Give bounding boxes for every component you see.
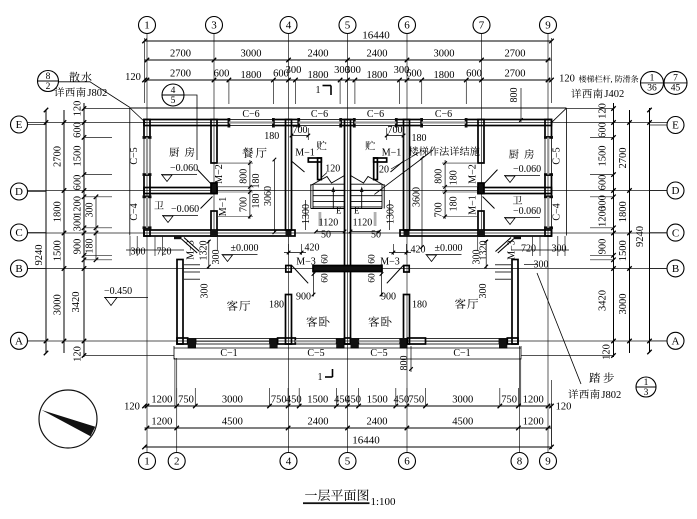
leader bubble 4/5 (184, 95, 197, 160)
note louti zuofa (409, 146, 419, 155)
dim 900 bedroom R (381, 272, 383, 297)
svg-text:5: 5 (171, 96, 176, 106)
axis B (28, 268, 668, 270)
svg-text:120: 120 (73, 101, 84, 117)
svg-text:C−5: C−5 (307, 348, 324, 359)
bottom dimension tier 16440 (145, 446, 552, 448)
svg-text:J802: J802 (601, 390, 621, 401)
apron corner diagonal left (130, 108, 146, 123)
svg-text:C−5: C−5 (129, 147, 140, 164)
axis D (28, 190, 668, 192)
svg-text:600: 600 (598, 175, 609, 191)
axis 2 (176, 358, 178, 453)
top dimension tier sub (145, 79, 552, 81)
svg-text:1: 1 (650, 74, 655, 84)
window jamb E wall (465, 118, 468, 128)
svg-text:300: 300 (85, 203, 96, 218)
svg-text:9240: 9240 (635, 226, 646, 247)
detail bubble 4/5 (162, 84, 184, 106)
extension stubs under C wall E (564, 236, 566, 256)
svg-text:6: 6 (404, 456, 410, 468)
svg-text:3420: 3420 (598, 290, 609, 311)
svg-text:180: 180 (251, 174, 262, 189)
svg-text:1500: 1500 (53, 240, 64, 261)
grid bubble 9 bottom (540, 453, 557, 470)
detail bubble 1/3 (636, 377, 656, 397)
wall B (313, 266, 382, 272)
door M-2 leaf right kitchen (483, 170, 498, 186)
svg-text:20: 20 (379, 165, 389, 176)
svg-text:750: 750 (408, 395, 424, 406)
svg-text:800: 800 (399, 356, 410, 371)
svg-text:800: 800 (509, 88, 520, 103)
top dimension tier 16440 (145, 40, 552, 42)
grid bubble 5 bottom (339, 453, 356, 470)
axis C (28, 232, 668, 234)
svg-text:16440: 16440 (352, 435, 380, 447)
svg-text:4: 4 (286, 456, 292, 468)
door M-1 leaf left storage (292, 162, 305, 173)
wall E kitchen L (144, 120, 229, 126)
svg-text:C−6: C−6 (242, 109, 259, 120)
wall grid7 upper (478, 120, 484, 164)
window C-6 stair R (354, 120, 396, 126)
svg-text:900: 900 (73, 239, 84, 255)
south porch outline (174, 346, 521, 359)
svg-text:120: 120 (73, 346, 84, 362)
leader 120 stair L (322, 173, 328, 178)
room label living right (455, 298, 466, 309)
bottom extension stubs (176, 388, 178, 406)
svg-text:750: 750 (501, 395, 517, 406)
svg-text:1500: 1500 (367, 395, 388, 406)
offset line 551.5 bottom (551, 380, 553, 449)
svg-text:1800: 1800 (618, 201, 629, 222)
svg-text:1: 1 (144, 20, 150, 32)
svg-text:M−1: M−1 (382, 148, 402, 159)
party wall grid5 (345, 120, 351, 345)
apron line left (129, 108, 131, 236)
grid bubble 6 bottom (399, 453, 416, 470)
left inner mini dims 300/180 (95, 197, 97, 260)
apron line top (130, 107, 567, 109)
svg-text:J402: J402 (604, 89, 624, 100)
svg-text:300: 300 (552, 244, 567, 255)
svg-text:1200: 1200 (523, 417, 544, 428)
svg-text:3420: 3420 (71, 292, 82, 313)
axis 6 (406, 34, 408, 453)
svg-text:1500: 1500 (598, 146, 609, 167)
svg-text:9: 9 (545, 20, 551, 32)
svg-text:1300: 1300 (386, 204, 397, 224)
svg-text:300: 300 (471, 250, 482, 265)
window jamb E wall (339, 118, 342, 128)
svg-text:7: 7 (479, 20, 485, 32)
svg-text:900: 900 (598, 239, 609, 255)
stair lower flight grey left (319, 212, 322, 226)
dim line 1320 W (208, 240, 210, 269)
leader 120 stair R (391, 153, 419, 170)
svg-text:2700: 2700 (505, 49, 526, 60)
top dimension tier spans (145, 59, 552, 61)
dim 800 top right (520, 88, 522, 122)
svg-text:1: 1 (318, 372, 323, 383)
svg-text:C−5: C−5 (370, 348, 387, 359)
svg-text:720: 720 (157, 247, 172, 258)
svg-text:16440: 16440 (362, 30, 390, 42)
dim line dining R doors (444, 160, 446, 219)
leader stair note (374, 160, 420, 194)
svg-text:750: 750 (271, 395, 287, 406)
svg-text:750: 750 (178, 395, 194, 406)
offset line 144.5 top (144, 38, 146, 103)
svg-text:300: 300 (478, 284, 489, 299)
grid bubble C left (11, 224, 28, 241)
door M-3 corner east leaf (498, 239, 514, 253)
grid bubble 1 bottom (139, 453, 156, 470)
svg-text:180: 180 (449, 196, 460, 211)
svg-text:180: 180 (412, 133, 427, 144)
svg-text:1200: 1200 (151, 395, 172, 406)
svg-text:120: 120 (325, 164, 340, 175)
svg-text:1500: 1500 (307, 395, 328, 406)
right extension stubs (590, 136, 614, 138)
svg-text:9240: 9240 (34, 245, 45, 266)
window jamb east wall (544, 136, 553, 139)
svg-text:600: 600 (73, 175, 84, 191)
room label living left (227, 300, 238, 311)
grid bubble B right (667, 260, 684, 277)
svg-text:1120: 1120 (353, 218, 373, 229)
axis 8 (519, 346, 521, 453)
svg-text:D: D (672, 185, 680, 197)
room label kitchen right (509, 149, 519, 159)
stair lower flight grey right (374, 212, 377, 226)
wall living east (512, 260, 518, 345)
west entry steps (184, 264, 200, 266)
svg-text:E: E (672, 120, 679, 132)
svg-text:120: 120 (559, 74, 575, 85)
grid bubble 5 top (339, 17, 356, 34)
apron corner diagonal right (552, 109, 567, 123)
grid bubble A left (11, 332, 28, 349)
pier A w1 (188, 338, 196, 349)
svg-text:4: 4 (171, 86, 176, 96)
stair break line right (351, 176, 385, 186)
svg-text:720: 720 (521, 244, 536, 255)
svg-text:C−6: C−6 (435, 109, 452, 120)
axis 7 (481, 34, 483, 237)
wall junction block C (478, 230, 484, 236)
detail bubble 8/2 (38, 71, 59, 92)
window jamb E wall (297, 118, 300, 128)
dim 900 bedroom L (313, 272, 315, 297)
svg-text:3600: 3600 (412, 187, 423, 207)
wall C right (400, 230, 552, 236)
note xiangxinan J802 bottom (568, 389, 578, 399)
svg-text:420: 420 (305, 243, 320, 254)
stair treads right unit (351, 183, 383, 185)
grid bubble B left (11, 260, 28, 277)
left dimension tier spans (63, 110, 65, 353)
stub dining L (218, 216, 253, 218)
detail bubble 1/36 (641, 71, 664, 94)
svg-text:B: B (672, 263, 679, 275)
wall grid6 jamb (404, 266, 409, 273)
grid bubble D right (667, 182, 684, 199)
wall living west (177, 260, 183, 345)
svg-text:M−1: M−1 (218, 197, 229, 217)
leader sanshui (59, 82, 131, 108)
svg-text:600: 600 (406, 69, 422, 80)
wall A mid-L (278, 338, 296, 344)
svg-text:300: 300 (200, 284, 211, 299)
svg-text:M−2: M−2 (214, 164, 225, 184)
stair up arrow left (332, 190, 334, 208)
wall storage R vert (374, 158, 378, 180)
window jamb E wall (353, 118, 356, 128)
svg-text:8: 8 (46, 72, 51, 82)
svg-text:M−3: M−3 (296, 257, 316, 268)
svg-text:3: 3 (644, 388, 649, 398)
stub dining L (218, 162, 253, 164)
dim 700 storage L line (292, 135, 309, 137)
svg-text:−0.060: −0.060 (513, 164, 541, 175)
window jamb E wall (420, 118, 423, 128)
grid bubble 3 top (206, 17, 223, 34)
svg-text:1800: 1800 (308, 70, 329, 81)
svg-text:E: E (354, 206, 360, 216)
svg-text:C: C (672, 227, 679, 239)
svg-text:1300: 1300 (301, 204, 312, 224)
svg-text:3000: 3000 (222, 395, 243, 406)
svg-text:1800: 1800 (434, 70, 455, 81)
svg-text:4: 4 (286, 20, 292, 32)
svg-text:180: 180 (269, 300, 284, 311)
window jamb east wall (544, 226, 553, 229)
svg-text:1800: 1800 (367, 70, 388, 81)
wall grid4 lower (286, 295, 292, 345)
stub dining R (442, 191, 477, 193)
svg-text:700: 700 (388, 125, 403, 136)
svg-text:300: 300 (345, 65, 361, 76)
apron line right (565, 108, 567, 236)
left dimension tier sub (83, 103, 85, 357)
svg-text:50: 50 (321, 230, 331, 241)
svg-text:C−6: C−6 (367, 109, 384, 120)
grid bubble 2 bottom (168, 453, 185, 470)
wall grid3 pier (211, 183, 217, 194)
svg-text:1:100: 1:100 (371, 496, 397, 508)
svg-text:45: 45 (671, 84, 681, 94)
window jamb west wall (143, 136, 152, 139)
svg-text:120: 120 (124, 402, 140, 413)
svg-text:1: 1 (144, 456, 150, 468)
dim 420 entry L (288, 244, 290, 255)
wall grid7 lower (478, 211, 484, 236)
grid bubble D left (11, 183, 28, 200)
door M-3 corner west leaf (182, 239, 198, 253)
corner notch east (514, 236, 522, 239)
svg-text:±0.000: ±0.000 (435, 243, 463, 254)
svg-text:5: 5 (345, 456, 351, 468)
wall E mid L (273, 120, 298, 126)
svg-text:2700: 2700 (618, 148, 629, 169)
window jamb west wall (143, 195, 152, 198)
svg-text:50: 50 (371, 230, 381, 241)
svg-text:3060: 3060 (263, 186, 274, 206)
porch edge extension W (174, 358, 176, 406)
left dimension tier 9240 (45, 110, 47, 353)
leader tabu (537, 273, 581, 384)
svg-text:1320: 1320 (199, 241, 210, 261)
dim 800 bottom right (410, 346, 412, 372)
dim 420 entry R (392, 244, 394, 255)
svg-text:M−1: M−1 (468, 195, 479, 215)
svg-text:1: 1 (316, 85, 321, 96)
wall W bottom (144, 228, 150, 236)
axis 3 (213, 34, 215, 237)
right dimension tier sub (613, 103, 615, 357)
axis 4 (288, 34, 290, 453)
svg-text:1500: 1500 (73, 146, 84, 167)
svg-text:4500: 4500 (452, 417, 473, 428)
bottom dimension tier sub (145, 405, 552, 407)
grid bubble 4 top (280, 17, 297, 34)
room label bedroom left (306, 316, 317, 327)
stair treads left unit (313, 183, 345, 185)
pier A w2 (270, 338, 278, 349)
grid bubble C right (667, 224, 684, 241)
svg-text:700: 700 (434, 202, 445, 217)
note louti langan (579, 75, 587, 83)
wall storage L vert (318, 158, 322, 180)
svg-text:2400: 2400 (308, 417, 329, 428)
room label dining left (242, 147, 253, 158)
svg-text:3000: 3000 (618, 294, 629, 315)
window jamb E wall (272, 118, 275, 128)
svg-text:1200: 1200 (523, 395, 544, 406)
svg-text:5: 5 (345, 20, 351, 32)
svg-text:2700: 2700 (53, 146, 64, 167)
stub dining L (218, 186, 253, 188)
svg-text:2700: 2700 (505, 69, 526, 80)
svg-text:800: 800 (434, 169, 445, 184)
room label bath left (154, 201, 163, 209)
svg-text:−0.450: −0.450 (104, 286, 132, 297)
svg-text:M−1: M−1 (295, 148, 315, 159)
pier A party L (336, 338, 344, 349)
svg-text:600: 600 (73, 122, 84, 138)
svg-text:A: A (672, 336, 680, 348)
dim 700 storage R line (387, 135, 404, 137)
bottom dimension tier spans (145, 427, 552, 429)
wall C left (144, 230, 295, 236)
wall E kitchen R (466, 120, 551, 126)
svg-text:120: 120 (602, 344, 613, 360)
dim line 1320 E (485, 240, 487, 269)
grid bubble E right (667, 117, 684, 134)
top extension stubs (228, 80, 230, 104)
wall D right (478, 188, 552, 194)
terrace sill line (174, 347, 521, 349)
wall A party (345, 338, 351, 344)
grid bubble 7 top (473, 17, 490, 34)
wall grid6 upper (404, 120, 410, 231)
grid bubble E left (11, 116, 28, 133)
grid bubble 8 bottom (511, 453, 528, 470)
svg-text:600: 600 (598, 122, 609, 138)
corner notch west (174, 236, 182, 239)
east entry steps (495, 264, 511, 266)
svg-text:600: 600 (214, 69, 230, 80)
svg-text:1800: 1800 (241, 70, 262, 81)
wall grid4 upper (286, 120, 292, 231)
axis E (28, 122, 668, 124)
wall grid6 lower (404, 295, 410, 345)
svg-text:2700: 2700 (170, 69, 191, 80)
svg-text:M−3: M−3 (186, 240, 197, 260)
svg-text:180: 180 (412, 300, 427, 311)
grid bubble 4 bottom (280, 453, 297, 470)
axis 5 (347, 34, 349, 453)
wall storage R horiz (374, 158, 387, 162)
wall junction block C (404, 230, 410, 236)
axis 9 (547, 34, 549, 453)
note underline to bubbles (640, 82, 687, 84)
wall grid4 jamb (286, 266, 291, 273)
svg-text:2400: 2400 (308, 49, 329, 60)
svg-text:C−1: C−1 (220, 348, 237, 359)
wall W top (144, 120, 150, 138)
wall E mid R (396, 120, 421, 126)
wall grid3 upper (211, 120, 217, 164)
dim line dining L doors (249, 160, 251, 219)
dim 1120 L line (316, 231, 345, 233)
window jamb E wall (228, 118, 231, 128)
svg-text:M−3: M−3 (380, 257, 400, 268)
pier A w4 (499, 338, 507, 349)
stub dining R (442, 216, 477, 218)
window C-5 east (545, 137, 552, 174)
room label storage left (317, 141, 327, 150)
svg-text:1800: 1800 (53, 201, 64, 222)
svg-text:4500: 4500 (222, 417, 243, 428)
svg-text:−0.060: −0.060 (171, 204, 199, 215)
svg-text:C: C (15, 227, 22, 239)
svg-text:300: 300 (286, 65, 302, 76)
room label bedroom right (368, 316, 379, 327)
svg-text:9: 9 (545, 456, 551, 468)
wall D left (144, 188, 217, 194)
svg-text:7: 7 (673, 74, 678, 84)
stub below C corner R (477, 236, 479, 250)
svg-text:60: 60 (321, 273, 331, 283)
wall E mid party (341, 120, 355, 126)
window C-4 west (144, 197, 150, 228)
stub dining R (442, 186, 477, 188)
title yiceng pingmiantu (305, 493, 317, 495)
wall A mid-R (407, 338, 425, 344)
wall E9 mid (545, 175, 552, 197)
door M-1 leaf left bath (201, 197, 213, 209)
window jamb east wall (544, 173, 553, 176)
svg-text:120: 120 (125, 72, 141, 83)
svg-text:A: A (15, 336, 23, 348)
svg-text:2400: 2400 (367, 49, 388, 60)
svg-text:3000: 3000 (452, 395, 473, 406)
wall A w-end (177, 338, 188, 344)
